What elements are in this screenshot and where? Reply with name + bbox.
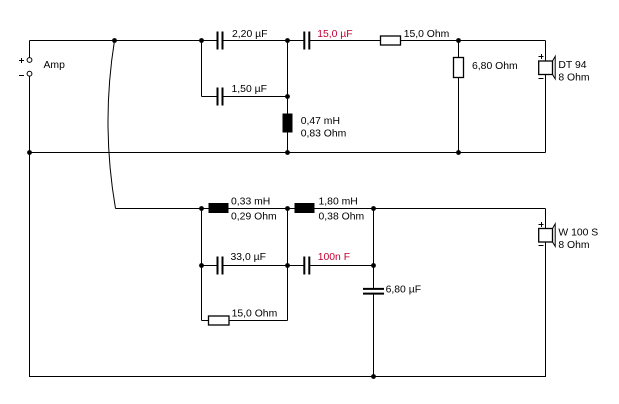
svg-text:0,83 Ohm: 0,83 Ohm — [301, 129, 347, 140]
svg-text:Amp: Amp — [44, 60, 66, 71]
svg-text:100n F: 100n F — [318, 252, 350, 263]
svg-text:15,0 µF: 15,0 µF — [317, 29, 352, 40]
svg-text:6,80 µF: 6,80 µF — [386, 285, 421, 296]
svg-text:2,20 µF: 2,20 µF — [232, 29, 267, 40]
svg-text:1,50 µF: 1,50 µF — [232, 84, 267, 95]
svg-text:15,0 Ohm: 15,0 Ohm — [404, 29, 450, 40]
svg-text:6,80 Ohm: 6,80 Ohm — [472, 61, 518, 72]
svg-text:W 100 S: W 100 S — [558, 228, 598, 239]
svg-text:1,80 mH: 1,80 mH — [319, 197, 358, 208]
svg-text:0,29 Ohm: 0,29 Ohm — [231, 212, 277, 223]
svg-text:33,0 µF: 33,0 µF — [231, 252, 266, 263]
svg-text:8 Ohm: 8 Ohm — [558, 73, 589, 84]
svg-text:8 Ohm: 8 Ohm — [558, 240, 589, 251]
svg-text:0,38 Ohm: 0,38 Ohm — [319, 212, 365, 223]
svg-text:DT 94: DT 94 — [558, 60, 586, 71]
svg-text:0,47 mH: 0,47 mH — [301, 116, 340, 127]
svg-text:0,33 mH: 0,33 mH — [231, 197, 270, 208]
svg-text:15,0 Ohm: 15,0 Ohm — [232, 309, 278, 320]
